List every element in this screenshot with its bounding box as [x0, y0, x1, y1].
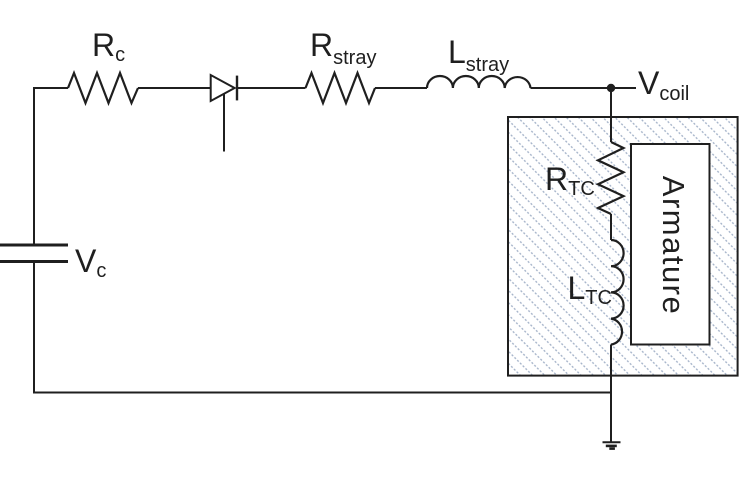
wire node down to RTC	[610, 88, 612, 142]
wire Rc to diode	[138, 87, 211, 89]
inductor LTC	[568, 240, 624, 345]
ground	[603, 442, 621, 448]
armature box	[631, 144, 710, 345]
inductor Lstray	[427, 34, 531, 88]
wire Rstray to Lstray	[375, 87, 427, 89]
wire RTC to LTC	[610, 214, 612, 240]
capacitor Vc	[0, 243, 106, 282]
svg-text:Rstray: Rstray	[310, 27, 376, 69]
resistor Rc	[68, 27, 138, 103]
svg-text:Vcoil: Vcoil	[638, 65, 689, 105]
svg-text:Vc: Vc	[75, 243, 106, 282]
wire LTC down to ground	[610, 345, 612, 442]
resistor Rstray	[306, 27, 377, 103]
node Vcoil junction dot	[607, 65, 690, 105]
svg-text:Armature: Armature	[656, 176, 691, 315]
diode (SCR)	[211, 75, 237, 152]
svg-text:Rc: Rc	[92, 27, 125, 66]
wire top-left vertical (capacitor to top rail)	[33, 88, 35, 244]
wire bottom-left vertical (capacitor to bottom rail)	[33, 263, 35, 394]
hatched box (coil region)	[508, 117, 738, 376]
wire diode to Rstray	[237, 87, 306, 89]
wire bottom rail	[33, 392, 611, 394]
wire Lstray to node	[531, 87, 637, 89]
wire top rail left segment	[33, 87, 68, 89]
svg-text:Lstray: Lstray	[448, 34, 509, 76]
resistor RTC	[545, 142, 624, 214]
